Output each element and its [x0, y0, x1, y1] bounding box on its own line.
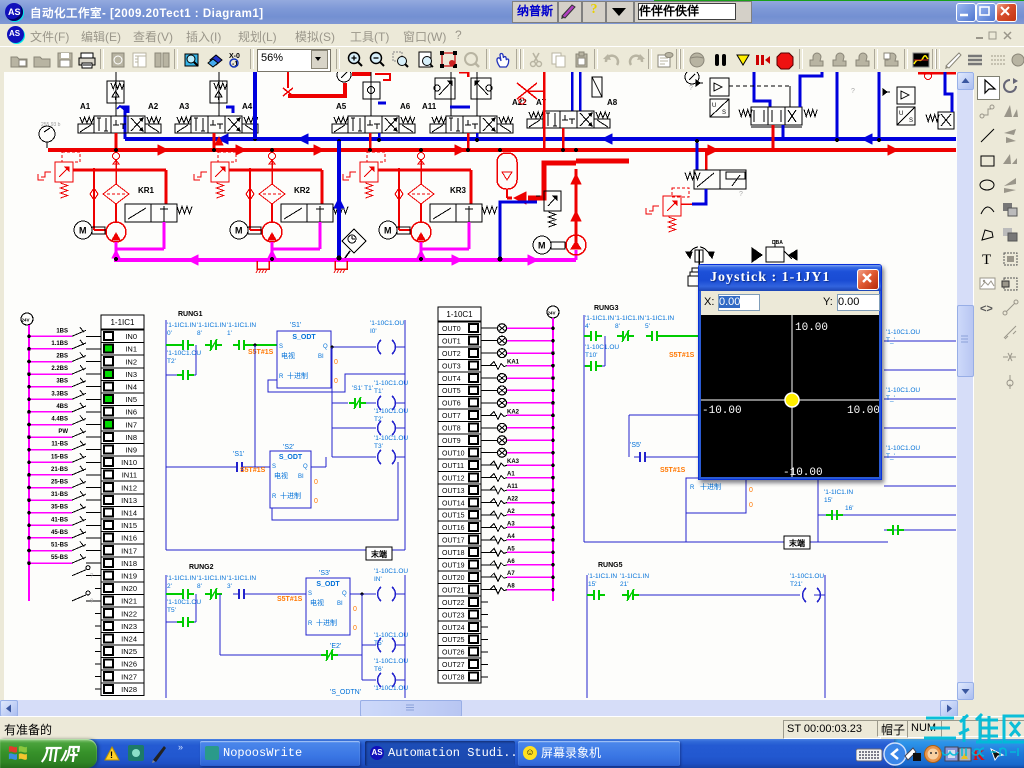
wire relief-to-valve KR3: [378, 169, 471, 172]
svg-text:U: U: [899, 111, 903, 117]
relief valve KR1R: [55, 162, 73, 182]
wire branch x818: [817, 478, 819, 542]
svg-text:OUT0: OUT0: [442, 326, 461, 333]
svg-text:'1-10C1.OU: '1-10C1.OU: [886, 445, 920, 452]
lamp OUT10: [481, 452, 497, 454]
svg-text:'1-10C1.OU: '1-10C1.OU: [886, 387, 920, 394]
relay coil KA2: [481, 414, 497, 416]
coil T5: [362, 644, 376, 646]
switch 4BS: [95, 411, 101, 413]
return wire KR2: [319, 222, 322, 249]
svg-text:1-10C1: 1-10C1: [446, 310, 473, 319]
svg-text:'1-1IC1.IN: '1-1IC1.IN: [227, 322, 256, 329]
end-of-rung box RUNG1: [366, 547, 392, 560]
svg-text:8': 8': [197, 583, 202, 590]
svg-text:S5T#1S: S5T#1S: [248, 349, 274, 356]
svg-text:?: ?: [739, 191, 743, 198]
svg-text:T5': T5': [167, 607, 176, 614]
relay coil KA3: [481, 464, 497, 466]
filter KR1: [103, 184, 129, 204]
wire rows right of window: [884, 340, 956, 342]
svg-text:A6: A6: [400, 102, 411, 111]
svg-text:IN19: IN19: [121, 572, 137, 581]
svg-text:255.93 b: 255.93 b: [41, 122, 61, 128]
wire drop x879: [878, 72, 881, 141]
wire valve feeds: [115, 72, 117, 116]
svg-text:T1': T1': [374, 388, 383, 395]
pilot relief R5: [663, 196, 681, 216]
flow meter FM1: [342, 229, 366, 253]
svg-text:'E2': 'E2': [330, 643, 341, 650]
svg-text:0: 0: [314, 479, 318, 486]
svg-text:IN': IN': [374, 576, 382, 583]
pump P4: [566, 235, 586, 255]
relay coil A4: [481, 539, 497, 541]
U/S converter U4: [897, 107, 915, 125]
svg-text:'S3': 'S3': [319, 570, 330, 577]
switch 4.4BS: [95, 424, 101, 426]
input row IN20: [95, 587, 101, 589]
valve above A8: [592, 77, 602, 97]
svg-text:A2: A2: [507, 509, 515, 515]
wire to valve V5: [696, 143, 699, 170]
svg-text:55-BS: 55-BS: [51, 555, 68, 561]
blue supply drop: [253, 72, 257, 139]
lamp OUT4: [481, 377, 497, 379]
svg-text:IN0: IN0: [125, 332, 137, 341]
input row IN21: [95, 600, 101, 602]
svg-text:45-BS: 45-BS: [51, 530, 68, 536]
pilot line KR3R: [367, 152, 385, 162]
wire accumulator feed: [528, 163, 576, 198]
svg-text:2': 2': [167, 583, 172, 590]
svg-text:RUNG2: RUNG2: [189, 564, 214, 571]
svg-text:'1-1IC1.IN: '1-1IC1.IN: [167, 575, 196, 582]
svg-text:T3': T3': [374, 443, 383, 450]
relay coil KA1: [481, 365, 497, 367]
svg-text:S5T#1S: S5T#1S: [669, 352, 695, 359]
rung RUNG1: [166, 311, 408, 560]
check valve KR3: [398, 172, 400, 230]
filter KR2: [259, 184, 285, 204]
svg-text:'1-1IC1.IN: '1-1IC1.IN: [227, 575, 256, 582]
svg-text:Q: Q: [323, 344, 328, 350]
lamp OUT0: [481, 327, 497, 329]
svg-text:24V: 24V: [548, 311, 556, 316]
svg-text:OUT7: OUT7: [442, 413, 461, 420]
relief valve R4: [544, 191, 561, 211]
svg-text:末端: 末端: [371, 549, 387, 559]
svg-text:A1: A1: [80, 102, 91, 111]
wire A5 feed: [370, 72, 372, 116]
svg-text:RUNG5: RUNG5: [598, 562, 623, 569]
svg-text:T2': T2': [167, 358, 176, 365]
svg-text:KR1: KR1: [138, 186, 155, 195]
svg-text:IN1: IN1: [125, 345, 137, 354]
svg-text:IN21: IN21: [121, 597, 137, 606]
contact 1-1IC1.IN15: [587, 594, 592, 596]
wire to gauge PG2: [330, 83, 345, 96]
input row IN25: [95, 650, 101, 652]
bottom rail RUNG3: [584, 541, 888, 543]
svg-text:4BS: 4BS: [56, 404, 68, 410]
tank T2: [335, 261, 347, 269]
svg-text:IN12: IN12: [121, 483, 137, 492]
switch 51-BS: [95, 550, 101, 552]
input row IN23: [95, 625, 101, 627]
left rail RUNG5: [586, 575, 588, 698]
svg-text:A3: A3: [507, 521, 515, 527]
tank T1: [257, 261, 269, 269]
svg-text:OUT18: OUT18: [442, 550, 465, 557]
svg-text:1-1IC1: 1-1IC1: [110, 318, 135, 327]
svg-text:I0': I0': [370, 328, 377, 335]
svg-text:<>: <>: [980, 303, 993, 315]
svg-text:OUT5: OUT5: [442, 388, 461, 395]
svg-text:OUT19: OUT19: [442, 563, 465, 570]
svg-text:'1-10C1.OU: '1-10C1.OU: [370, 320, 404, 327]
contact 1-1IC1.IN5: [646, 335, 652, 337]
joystick lever 1-1JY1: [698, 250, 700, 266]
svg-text:OUT10: OUT10: [442, 450, 465, 457]
svg-text:1.1BS: 1.1BS: [51, 341, 68, 347]
proportional valve PV2: [926, 115, 939, 122]
svg-text:IN22: IN22: [121, 609, 137, 618]
relay coil A3: [481, 526, 497, 528]
svg-text:?: ?: [90, 599, 94, 605]
svg-text:3': 3': [227, 583, 232, 590]
motor KR2M: [230, 221, 248, 239]
svg-text:OUT25: OUT25: [442, 637, 465, 644]
svg-text:S: S: [909, 118, 913, 124]
svg-text:IN20: IN20: [121, 584, 137, 593]
svg-text:OUT1: OUT1: [442, 338, 461, 345]
svg-text:OUT14: OUT14: [442, 500, 465, 507]
svg-text:S_ODT: S_ODT: [279, 454, 303, 461]
wire drop x837: [836, 72, 839, 141]
svg-text:OUT20: OUT20: [442, 575, 465, 582]
svg-text:0: 0: [353, 625, 357, 632]
svg-text:A1: A1: [507, 472, 515, 478]
lamp OUT9: [481, 439, 497, 441]
amplifier U3: [897, 87, 915, 104]
svg-text:IN8: IN8: [125, 433, 137, 442]
contact 1-10C1.OUT T10: [584, 365, 589, 367]
svg-text:2BS: 2BS: [56, 354, 68, 360]
svg-text:OUT9: OUT9: [442, 438, 461, 445]
svg-text:KR3: KR3: [450, 186, 467, 195]
svg-text:'1-10C1.OU: '1-10C1.OU: [374, 685, 408, 692]
contact S1-T1: [332, 402, 348, 404]
output row OUT26: [481, 651, 488, 653]
coil rung2 out: [378, 587, 381, 601]
contact IN16: [887, 529, 893, 531]
unloading valve KR3V: [430, 204, 456, 222]
svg-text:'1-10C1.OU: '1-10C1.OU: [374, 568, 408, 575]
wire relief-to-valve KR2: [229, 169, 322, 172]
wire to relief R4: [500, 202, 537, 258]
coil T2: [332, 427, 376, 429]
svg-text:PW: PW: [58, 429, 68, 435]
svg-text:OUT8: OUT8: [442, 426, 461, 433]
svg-text:IN28: IN28: [121, 685, 137, 694]
svg-text:OUT22: OUT22: [442, 600, 465, 607]
svg-text:S: S: [272, 464, 276, 470]
contact 1-10C1.OUT5 seal-in: [166, 621, 181, 623]
suction port KR2: [269, 153, 276, 160]
check valve KR2: [249, 172, 251, 230]
contact 1-1IC1.IN4: [584, 335, 589, 337]
svg-text:4.4BS: 4.4BS: [51, 417, 68, 423]
contact 1-1IC1.IN3: [233, 593, 239, 595]
test valve X2: [527, 90, 544, 92]
relay coil A6: [481, 564, 497, 566]
svg-text:?: ?: [90, 574, 94, 580]
switch 41-BS: [95, 524, 101, 526]
contact 1-1IC1.IN8 nc rung3: [617, 335, 623, 337]
pilot line KR1R: [62, 152, 80, 162]
svg-text:'1-10C1.OU: '1-10C1.OU: [374, 380, 408, 387]
switch 2BS: [95, 361, 101, 363]
contact 1-10C1.OUT2 seal-in: [166, 374, 181, 376]
switch 25-BS: [95, 487, 101, 489]
output supply bus: [552, 318, 554, 601]
svg-text:OUT26: OUT26: [442, 650, 465, 657]
contact 1-1IC1.IN8 nc: [205, 593, 211, 595]
left rail RUNG2: [165, 575, 167, 698]
svg-text:0: 0: [749, 502, 753, 509]
svg-text:3.3BS: 3.3BS: [51, 391, 68, 397]
svg-text:A6: A6: [507, 559, 515, 565]
valve A1 A2: [94, 116, 111, 133]
svg-text:IN9: IN9: [125, 446, 137, 455]
svg-text:Q: Q: [303, 464, 308, 470]
coil T3: [332, 456, 376, 458]
svg-text:IN5: IN5: [125, 395, 137, 404]
relay coil A5: [481, 551, 497, 553]
switch 55-BS: [95, 562, 101, 564]
svg-text:35-BS: 35-BS: [51, 505, 68, 511]
switch 35-BS: [95, 512, 101, 514]
svg-text:IN2: IN2: [125, 357, 137, 366]
switch PW: [95, 436, 101, 438]
svg-text:A8: A8: [507, 584, 515, 590]
svg-text:'S5': 'S5': [630, 442, 641, 449]
svg-text:OUT21: OUT21: [442, 587, 465, 594]
svg-text:IN25: IN25: [121, 647, 137, 656]
magenta return bus: [114, 258, 576, 262]
pump KR2P: [262, 222, 282, 242]
coil T21: [803, 588, 806, 602]
svg-text:T10': T10': [585, 352, 597, 359]
svg-text:'1-10C1.OU: '1-10C1.OU: [886, 329, 920, 336]
svg-text:RUNG3: RUNG3: [594, 305, 619, 312]
relay coil A1: [481, 477, 497, 479]
check valve above A1: [107, 81, 124, 103]
svg-text:0: 0: [353, 606, 357, 613]
input row IN19: [95, 575, 101, 577]
svg-text:'1-1IC1.IN: '1-1IC1.IN: [824, 489, 853, 496]
relay coil A7: [481, 576, 497, 578]
svg-text:IN16: IN16: [121, 534, 137, 543]
input row IN27: [95, 676, 101, 678]
svg-text:-10.00: -10.00: [702, 405, 742, 417]
switch 31-BS: [95, 499, 101, 501]
svg-text:24V: 24V: [22, 318, 30, 323]
svg-text:IN3: IN3: [125, 370, 137, 379]
svg-text:11-BS: 11-BS: [51, 442, 68, 448]
svg-text:8': 8': [197, 330, 202, 337]
switch 3BS: [95, 386, 101, 388]
rung RUNG5: [587, 562, 825, 698]
right rail RUNG2: [404, 575, 406, 698]
valve A5 A6: [348, 116, 365, 133]
svg-text:'1-10C1.OU: '1-10C1.OU: [374, 408, 408, 415]
valve A3 A4: [191, 116, 208, 133]
output row OUT27: [481, 663, 488, 665]
motor KR1M: [74, 221, 92, 239]
accumulator AC1: [497, 153, 517, 189]
svg-text:IN23: IN23: [121, 622, 137, 631]
svg-text:A4: A4: [507, 534, 515, 540]
wire filter-to-pump KR1: [115, 204, 117, 223]
svg-text:T2': T2': [374, 416, 383, 423]
svg-text:M: M: [235, 226, 243, 236]
svg-text:T: T: [982, 252, 991, 268]
wire A7 feeds: [571, 72, 574, 111]
title bar: [0, 0, 1024, 24]
wire prop valve PV1 feed: [754, 72, 770, 107]
svg-text:OUT16: OUT16: [442, 525, 465, 532]
red pressure main line: [48, 148, 956, 152]
svg-text:A7: A7: [507, 571, 515, 577]
svg-text:'1-10C1.OU: '1-10C1.OU: [374, 658, 408, 665]
svg-text:OUT15: OUT15: [442, 513, 465, 520]
gauge PG3: [685, 70, 699, 84]
svg-text:A2: A2: [148, 102, 159, 111]
svg-text:电视: 电视: [274, 471, 288, 480]
wire pump4 pressure riser: [575, 169, 578, 243]
svg-text:IN11: IN11: [122, 471, 137, 480]
svg-text:OUT3: OUT3: [442, 363, 461, 370]
switch 1BS: [95, 335, 101, 337]
check valve KR1: [93, 172, 95, 230]
svg-text:Q: Q: [342, 591, 347, 597]
return wire KR1: [163, 222, 166, 249]
svg-text:KA2: KA2: [507, 409, 520, 415]
svg-text:OUT23: OUT23: [442, 612, 465, 619]
svg-text:A3: A3: [179, 102, 190, 111]
left rail RUNG1: [165, 320, 167, 550]
svg-text:T6': T6': [374, 666, 383, 673]
relay coil A8: [481, 589, 497, 591]
svg-text:S_ODT: S_ODT: [292, 334, 316, 341]
svg-text:BI: BI: [298, 474, 304, 480]
end-of-rung box RUNG3: [784, 536, 810, 549]
svg-text:十进制: 十进制: [316, 618, 337, 627]
svg-text:R: R: [272, 494, 277, 500]
wire top right supply: [918, 72, 956, 75]
svg-text:8': 8': [615, 323, 620, 330]
motor KR3M: [379, 221, 397, 239]
input row IN22: [95, 613, 101, 615]
svg-text:A8: A8: [607, 98, 618, 107]
svg-text:16': 16': [845, 505, 853, 512]
unloading valve KR2V: [281, 204, 307, 222]
svg-text:'S1': 'S1': [233, 451, 244, 458]
svg-text:KR2: KR2: [294, 186, 311, 195]
wire rung1 row1: [166, 344, 181, 346]
valve A7 A8: [543, 111, 560, 128]
valve A11: [446, 116, 463, 133]
svg-text:?: ?: [689, 85, 693, 92]
svg-text:0: 0: [334, 378, 338, 385]
pressure gauge PG1: [39, 126, 55, 142]
svg-text:T_': T_': [886, 337, 895, 344]
svg-text:电视: 电视: [281, 351, 295, 360]
svg-text:M: M: [538, 241, 546, 251]
svg-text:41-BS: 41-BS: [51, 517, 68, 523]
svg-text:15-BS: 15-BS: [51, 454, 68, 460]
lamp OUT6: [481, 402, 497, 404]
wire A1 P-port: [115, 133, 118, 150]
svg-text:OUT6: OUT6: [442, 401, 461, 408]
svg-text:51-BS: 51-BS: [51, 543, 68, 549]
contact 1-1IC1.IN2: [166, 593, 181, 595]
svg-text:T21': T21': [790, 581, 802, 588]
relay coil A11: [481, 489, 497, 491]
24V supply node left: [21, 313, 33, 325]
svg-text:KA3: KA3: [507, 459, 520, 465]
flow controls above A11: [435, 78, 455, 99]
svg-text:IN18: IN18: [121, 559, 137, 568]
output row OUT24: [481, 626, 488, 628]
pump KR3P: [411, 222, 431, 242]
output row OUT23: [481, 614, 488, 616]
svg-text:21': 21': [620, 581, 628, 588]
svg-text:4': 4': [585, 323, 590, 330]
svg-text:OUT11: OUT11: [442, 463, 464, 470]
svg-text:15': 15': [588, 581, 596, 588]
svg-text:'1-10C1.OU: '1-10C1.OU: [790, 573, 824, 580]
wire with plug X1: [287, 72, 289, 88]
input supply bus: [28, 325, 30, 601]
svg-text:A5: A5: [336, 102, 347, 111]
input row IN26: [95, 663, 101, 665]
svg-text:31-BS: 31-BS: [51, 492, 68, 498]
24V supply node right: [547, 306, 559, 318]
svg-text:S5T#1S: S5T#1S: [277, 596, 303, 603]
svg-text:KA1: KA1: [507, 360, 520, 366]
svg-text:1': 1': [227, 330, 232, 337]
svg-text:'1-10C1.OU: '1-10C1.OU: [585, 344, 619, 351]
svg-text:?: ?: [552, 219, 556, 226]
U/S converter U2: [710, 99, 729, 117]
svg-text:IN7: IN7: [125, 420, 137, 429]
switch 1.1BS: [95, 348, 101, 350]
suction port KR3: [418, 153, 425, 160]
svg-text:A22: A22: [507, 497, 519, 503]
input row IN28: [95, 688, 101, 690]
svg-text:'S1': 'S1': [290, 322, 301, 329]
svg-text:S_ODT: S_ODT: [316, 581, 340, 588]
svg-text:'S_ODTN': 'S_ODTN': [330, 689, 361, 696]
left rail RUNG3: [583, 315, 585, 542]
svg-text:R: R: [690, 485, 695, 491]
right rail RUNG5: [824, 575, 826, 698]
lamp OUT8: [481, 427, 497, 429]
svg-text:'1-1IC1.IN: '1-1IC1.IN: [588, 573, 617, 580]
